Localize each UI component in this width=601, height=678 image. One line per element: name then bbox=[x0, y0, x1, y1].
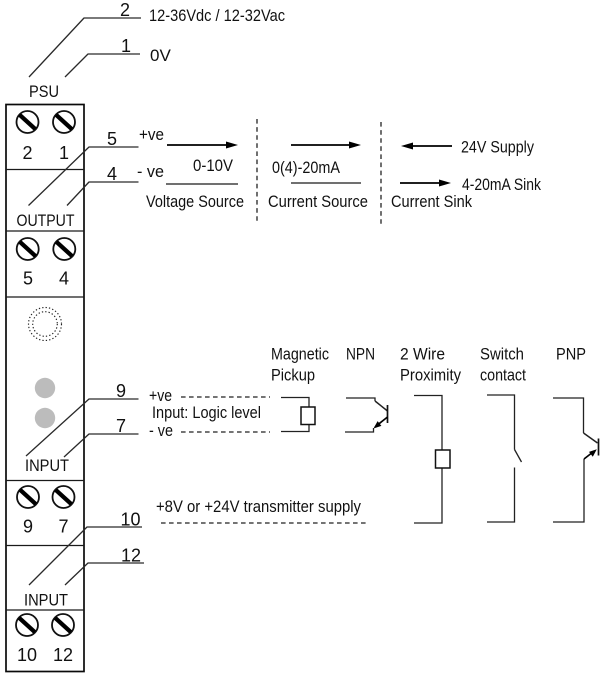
module divider below terminals 5 4 bbox=[6, 296, 84, 298]
wire: terminal 12 callout line bbox=[65, 563, 144, 585]
svg-text:PSU: PSU bbox=[29, 83, 59, 101]
svg-text:+8V or +24V transmitter supply: +8V or +24V transmitter supply bbox=[156, 498, 362, 516]
svg-text:10: 10 bbox=[120, 510, 140, 530]
module divider below terminals 9 7 bbox=[6, 545, 84, 547]
svg-text:INPUT: INPUT bbox=[25, 457, 69, 475]
wire: +ve dashed bbox=[181, 396, 270, 398]
arrow 4-20mA sink (right) bbox=[400, 180, 451, 187]
svg-text:Current Sink: Current Sink bbox=[391, 193, 473, 211]
svg-text:- ve: - ve bbox=[137, 163, 164, 181]
magnetic pickup symbol bbox=[281, 398, 309, 432]
LED dot upper bbox=[35, 378, 55, 398]
wire: terminal 7 callout line bbox=[64, 434, 139, 457]
svg-text:PNP: PNP bbox=[556, 346, 586, 364]
module divider below OUTPUT label bbox=[6, 230, 84, 232]
svg-text:2: 2 bbox=[120, 0, 130, 20]
screw terminal 9 bbox=[17, 486, 39, 508]
svg-text:12-36Vdc / 12-32Vac: 12-36Vdc / 12-32Vac bbox=[149, 7, 285, 25]
arrow current source bbox=[291, 142, 361, 149]
svg-text:24V Supply: 24V Supply bbox=[461, 139, 535, 157]
module divider below PSU terminals bbox=[6, 169, 84, 171]
screw terminal 4 bbox=[53, 238, 75, 260]
proximity detector symbol bbox=[414, 396, 442, 524]
svg-text:Switch: Switch bbox=[480, 346, 524, 364]
svg-text:5: 5 bbox=[23, 269, 33, 289]
svg-text:0(4)-20mA: 0(4)-20mA bbox=[272, 159, 340, 177]
svg-text:0-10V: 0-10V bbox=[193, 157, 233, 175]
wire: -ve dashed bbox=[181, 431, 270, 433]
svg-text:7: 7 bbox=[116, 416, 126, 436]
svg-text:- ve: - ve bbox=[149, 422, 173, 440]
svg-text:10: 10 bbox=[17, 645, 37, 665]
wire: terminal 1 callout line bbox=[65, 54, 140, 77]
separator dashed line 2 bbox=[380, 122, 382, 225]
svg-text:contact: contact bbox=[480, 367, 526, 385]
svg-text:12: 12 bbox=[121, 546, 141, 566]
svg-text:OUTPUT: OUTPUT bbox=[17, 212, 75, 230]
svg-text:Proximity: Proximity bbox=[400, 367, 462, 385]
svg-text:4-20mA Sink: 4-20mA Sink bbox=[462, 176, 542, 194]
arrow voltage source bbox=[167, 142, 238, 149]
svg-text:+ve: +ve bbox=[139, 126, 164, 144]
svg-text:4: 4 bbox=[107, 164, 117, 184]
transistor PNP symbol bbox=[553, 398, 598, 522]
svg-text:12: 12 bbox=[53, 645, 73, 665]
svg-text:1: 1 bbox=[59, 143, 69, 163]
svg-text:7: 7 bbox=[58, 517, 68, 537]
svg-text:5: 5 bbox=[107, 129, 117, 149]
indicator dashed circle inner bbox=[33, 312, 58, 337]
svg-text:Current Source: Current Source bbox=[268, 193, 368, 211]
svg-text:9: 9 bbox=[116, 381, 126, 401]
indicator dashed circle outer bbox=[29, 308, 62, 341]
svg-text:4: 4 bbox=[59, 269, 69, 289]
LED dot lower bbox=[35, 408, 55, 428]
wire: terminal 10 callout line bbox=[29, 527, 142, 585]
module body outline bbox=[6, 105, 84, 672]
wire: underline voltage bbox=[166, 183, 238, 185]
svg-text:INPUT: INPUT bbox=[24, 592, 68, 610]
wire: terminal 4 callout line bbox=[67, 182, 139, 206]
screw terminal 7 bbox=[53, 486, 75, 508]
svg-text:0V: 0V bbox=[150, 46, 171, 65]
module divider below second INPUT label bbox=[6, 609, 84, 611]
wire: terminal 2 callout line bbox=[29, 18, 141, 77]
wire: transmitter supply dashed bbox=[161, 522, 369, 524]
module divider below INPUT label bbox=[6, 480, 84, 482]
svg-text:Voltage Source: Voltage Source bbox=[146, 193, 244, 211]
svg-text:+ve: +ve bbox=[149, 387, 172, 405]
svg-text:2 Wire: 2 Wire bbox=[400, 346, 445, 364]
screw terminal 10 bbox=[16, 614, 38, 636]
screw terminal 1 bbox=[53, 111, 75, 133]
transistor NPN symbol bbox=[345, 398, 388, 432]
svg-text:2: 2 bbox=[22, 143, 32, 163]
screw terminal 12 bbox=[52, 614, 74, 636]
wire: underline current bbox=[291, 182, 361, 184]
svg-text:9: 9 bbox=[23, 517, 33, 537]
wire: terminal 9 callout line bbox=[26, 399, 139, 456]
screw terminal 5 bbox=[17, 238, 39, 260]
separator dashed line 1 bbox=[256, 119, 258, 222]
svg-text:NPN: NPN bbox=[346, 346, 375, 364]
switch contact symbol bbox=[487, 395, 522, 522]
svg-text:Pickup: Pickup bbox=[271, 367, 315, 385]
svg-text:1: 1 bbox=[121, 36, 131, 56]
arrow 24V supply (left) bbox=[401, 143, 452, 150]
screw terminal 2 bbox=[17, 111, 39, 133]
svg-text:Magnetic: Magnetic bbox=[271, 346, 329, 364]
wire: terminal 5 callout line bbox=[29, 147, 139, 206]
svg-text:Input: Logic level: Input: Logic level bbox=[152, 404, 261, 422]
